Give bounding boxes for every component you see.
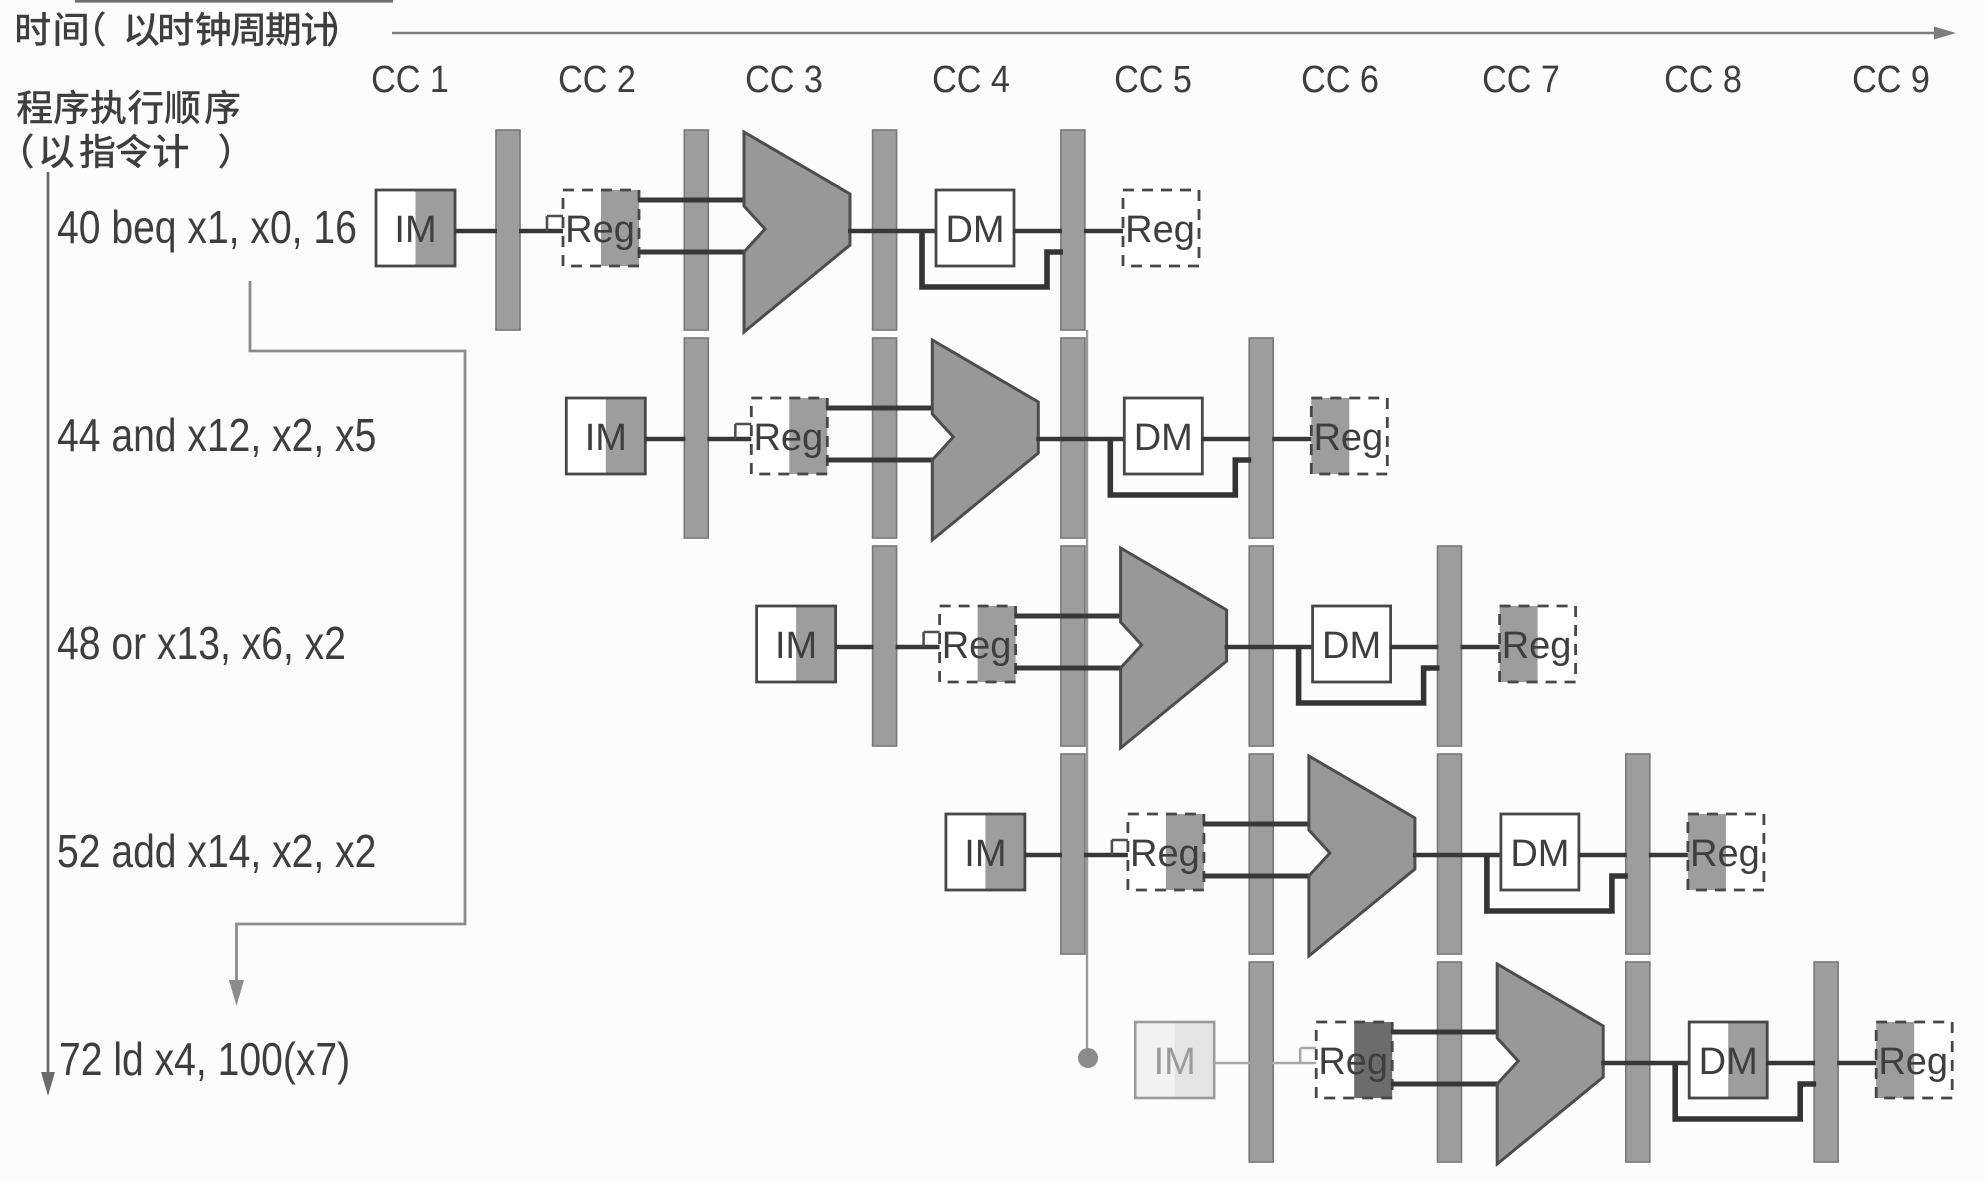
header label: 时间（以时钟周期计） bbox=[17, 11, 337, 46]
data memory DM (row 5) bbox=[1689, 1022, 1767, 1098]
wires Reg read ports to ALU inputs (row 4) bbox=[1203, 824, 1312, 876]
wire IM to IF/ID bar (row 3) bbox=[836, 645, 874, 650]
svg-text:CC 5: CC 5 bbox=[1114, 57, 1192, 100]
svg-text:48 or x13, x6, x2: 48 or x13, x6, x2 bbox=[57, 618, 346, 670]
program order (instruction) axis arrow bbox=[41, 172, 55, 1096]
register file Reg read (row 4) bbox=[1128, 814, 1204, 890]
instruction memory IM (row 2) bbox=[566, 398, 645, 474]
svg-text:CC 6: CC 6 bbox=[1301, 57, 1379, 100]
ALU (row 4) bbox=[1309, 756, 1415, 956]
svg-text:Reg: Reg bbox=[1130, 833, 1200, 875]
register file Reg read (row 2) bbox=[751, 398, 827, 474]
wire MEM/WB bar to Reg write (row 1) bbox=[1084, 229, 1125, 234]
svg-text:40 beq x1, x0, 16: 40 beq x1, x0, 16 bbox=[57, 202, 357, 254]
wire DM to MEM/WB bar (row 4) bbox=[1578, 853, 1627, 858]
pipeline register bar EX/MEM (row 3, CC5/CC6) bbox=[1249, 546, 1273, 746]
pipeline register bar ID/EX (row 2, CC3/CC4) bbox=[873, 338, 897, 538]
svg-text:Reg: Reg bbox=[565, 209, 635, 251]
svg-text:IM: IM bbox=[394, 209, 436, 251]
svg-text:DM: DM bbox=[1134, 417, 1193, 459]
left label: 程序执行顺序（以指令计） bbox=[17, 90, 239, 125]
ALU (row 5) bbox=[1497, 964, 1603, 1164]
branch target PC line from MEM/WB bar of beq down to fetch of 72 ld bbox=[1086, 330, 1088, 1050]
svg-text:IM: IM bbox=[964, 833, 1006, 875]
ALU (row 3) bbox=[1121, 548, 1227, 748]
svg-text:DM: DM bbox=[1510, 833, 1569, 875]
instruction memory IM (row 4) bbox=[946, 814, 1025, 890]
svg-text:Reg: Reg bbox=[1318, 1041, 1388, 1083]
wire ALU output to DM (row 4) bbox=[1413, 853, 1503, 858]
svg-text:DM: DM bbox=[1699, 1041, 1758, 1083]
pipeline register bar MEM/WB (row 1, CC4/CC5) bbox=[1061, 130, 1085, 330]
pipeline register bar EX/MEM (row 5, CC7/CC8) bbox=[1626, 962, 1650, 1162]
svg-text:Reg: Reg bbox=[942, 625, 1012, 667]
svg-text:52 add x14, x2, x2: 52 add x14, x2, x2 bbox=[57, 826, 376, 878]
wire DM to MEM/WB bar (row 5) bbox=[1766, 1061, 1815, 1066]
ALU-result bypass wire looping under DM into MEM/WB bar (row 5) bbox=[1675, 1063, 1816, 1119]
instruction memory IM (row 5) bbox=[1135, 1022, 1214, 1098]
pipeline register bar IF/ID (row 5, CC5/CC6) bbox=[1249, 962, 1273, 1162]
register file Reg write-back (row 2) bbox=[1311, 398, 1387, 474]
register file Reg write-back (row 5) bbox=[1876, 1022, 1952, 1098]
pipeline register bar ID/EX (row 5, CC6/CC7) bbox=[1438, 962, 1462, 1162]
pipeline register bar MEM/WB (row 5, CC8/CC9) bbox=[1814, 962, 1838, 1162]
svg-text:CC 3: CC 3 bbox=[745, 57, 823, 100]
svg-text:CC 4: CC 4 bbox=[932, 57, 1010, 100]
wire ALU output to DM (row 3) bbox=[1225, 645, 1315, 650]
register file Reg write-back (row 1) bbox=[1123, 190, 1199, 266]
svg-text:DM: DM bbox=[1322, 625, 1381, 667]
svg-text:CC 1: CC 1 bbox=[371, 57, 449, 100]
svg-text:IM: IM bbox=[1154, 1041, 1196, 1083]
scan artifact: dark sliver along top edge bbox=[75, 0, 393, 3]
wire DM to MEM/WB bar (row 3) bbox=[1390, 645, 1439, 650]
register file Reg read (row 5) bbox=[1316, 1022, 1392, 1098]
data memory DM (row 3) bbox=[1313, 606, 1391, 682]
pipeline register bar EX/MEM (row 2, CC4/CC5) bbox=[1061, 338, 1085, 538]
wire DM to MEM/WB bar (row 1) bbox=[1013, 229, 1062, 234]
wire IF/ID bar to Reg with clock-edge notch (row 5) bbox=[1272, 1048, 1318, 1063]
data memory DM (row 1) bbox=[936, 190, 1014, 266]
svg-text:CC 7: CC 7 bbox=[1482, 57, 1560, 100]
wire IF/ID bar to Reg with clock-edge notch (row 2) bbox=[707, 424, 753, 439]
ALU (row 2) bbox=[932, 340, 1038, 540]
wire IF/ID bar to Reg with clock-edge notch (row 4) bbox=[1084, 840, 1130, 855]
wire MEM/WB bar to Reg write (row 3) bbox=[1461, 645, 1502, 650]
svg-text:Reg: Reg bbox=[1313, 417, 1383, 459]
pipeline register bar IF/ID (row 4, CC4/CC5) bbox=[1061, 754, 1085, 954]
ALU-result bypass wire looping under DM into MEM/WB bar (row 2) bbox=[1110, 439, 1251, 495]
svg-text:IM: IM bbox=[585, 417, 627, 459]
wire IF/ID bar to Reg with clock-edge notch (row 1) bbox=[519, 216, 565, 231]
wire IM to IF/ID bar (row 5) bbox=[1214, 1062, 1250, 1065]
svg-text:Reg: Reg bbox=[1878, 1041, 1948, 1083]
svg-text:Reg: Reg bbox=[753, 417, 823, 459]
instruction memory IM (row 3) bbox=[757, 606, 836, 682]
svg-text:DM: DM bbox=[945, 209, 1004, 251]
wire IM to IF/ID bar (row 1) bbox=[455, 229, 497, 234]
svg-text:Reg: Reg bbox=[1125, 209, 1195, 251]
register file Reg read (row 3) bbox=[940, 606, 1016, 682]
junction dot at PC line end bbox=[1078, 1048, 1098, 1068]
ALU (row 1) bbox=[744, 132, 850, 332]
pipeline register bar ID/EX (row 1, CC2/CC3) bbox=[684, 130, 708, 330]
instruction memory IM (row 1) bbox=[376, 190, 455, 266]
svg-text:44 and x12, x2, x5: 44 and x12, x2, x5 bbox=[57, 410, 376, 462]
data memory DM (row 2) bbox=[1124, 398, 1202, 474]
pipeline register bar ID/EX (row 3, CC4/CC5) bbox=[1061, 546, 1085, 746]
svg-text:IM: IM bbox=[775, 625, 817, 667]
wire MEM/WB bar to Reg write (row 4) bbox=[1649, 853, 1690, 858]
wires Reg read ports to ALU inputs (row 5) bbox=[1391, 1032, 1500, 1084]
register file Reg write-back (row 4) bbox=[1688, 814, 1764, 890]
wire ALU output to DM (row 2) bbox=[1036, 437, 1126, 442]
svg-text:72 ld x4, 100(x7): 72 ld x4, 100(x7) bbox=[59, 1034, 350, 1086]
pipeline register bar IF/ID (row 2, CC2/CC3) bbox=[684, 338, 708, 538]
wire IM to IF/ID bar (row 2) bbox=[645, 437, 685, 442]
wire IF/ID bar to Reg with clock-edge notch (row 3) bbox=[896, 632, 942, 647]
wire MEM/WB bar to Reg write (row 2) bbox=[1272, 437, 1313, 442]
pipeline register bar MEM/WB (row 4, CC7/CC8) bbox=[1626, 754, 1650, 954]
svg-text:CC 9: CC 9 bbox=[1852, 57, 1930, 100]
wires Reg read ports to ALU inputs (row 3) bbox=[1015, 616, 1124, 668]
pipeline register bar IF/ID (row 1, CC1/CC2) bbox=[496, 130, 520, 330]
ALU-result bypass wire looping under DM into MEM/WB bar (row 1) bbox=[922, 231, 1063, 287]
pipeline register bar MEM/WB (row 3, CC6/CC7) bbox=[1438, 546, 1462, 746]
svg-text:Reg: Reg bbox=[1502, 625, 1572, 667]
svg-text:CC 2: CC 2 bbox=[558, 57, 636, 100]
register file Reg read (row 1) bbox=[563, 190, 639, 266]
wire DM to MEM/WB bar (row 2) bbox=[1201, 437, 1250, 442]
wire ALU output to DM (row 5) bbox=[1601, 1061, 1691, 1066]
pipeline register bar ID/EX (row 4, CC5/CC6) bbox=[1249, 754, 1273, 954]
pipeline register bar EX/MEM (row 4, CC6/CC7) bbox=[1438, 754, 1462, 954]
svg-text:CC 8: CC 8 bbox=[1664, 57, 1742, 100]
wire IM to IF/ID bar (row 4) bbox=[1025, 853, 1062, 858]
register file Reg write-back (row 3) bbox=[1500, 606, 1576, 682]
ALU-result bypass wire looping under DM into MEM/WB bar (row 4) bbox=[1487, 855, 1628, 911]
wires Reg read ports to ALU inputs (row 1) bbox=[638, 200, 747, 252]
time axis arrow bbox=[392, 27, 1956, 40]
wires Reg read ports to ALU inputs (row 2) bbox=[826, 408, 935, 460]
data memory DM (row 4) bbox=[1501, 814, 1579, 890]
pipeline register bar MEM/WB (row 2, CC5/CC6) bbox=[1249, 338, 1273, 538]
wire MEM/WB bar to Reg write (row 5) bbox=[1837, 1061, 1878, 1066]
wire ALU output to DM (row 1) bbox=[848, 229, 938, 234]
pipeline register bar IF/ID (row 3, CC3/CC4) bbox=[873, 546, 897, 746]
branch taken control-flow path from 40 beq down to 72 ld bbox=[237, 281, 466, 982]
pipeline register bar EX/MEM (row 1, CC3/CC4) bbox=[873, 130, 897, 330]
ALU-result bypass wire looping under DM into MEM/WB bar (row 3) bbox=[1299, 647, 1440, 703]
svg-text:Reg: Reg bbox=[1690, 833, 1760, 875]
